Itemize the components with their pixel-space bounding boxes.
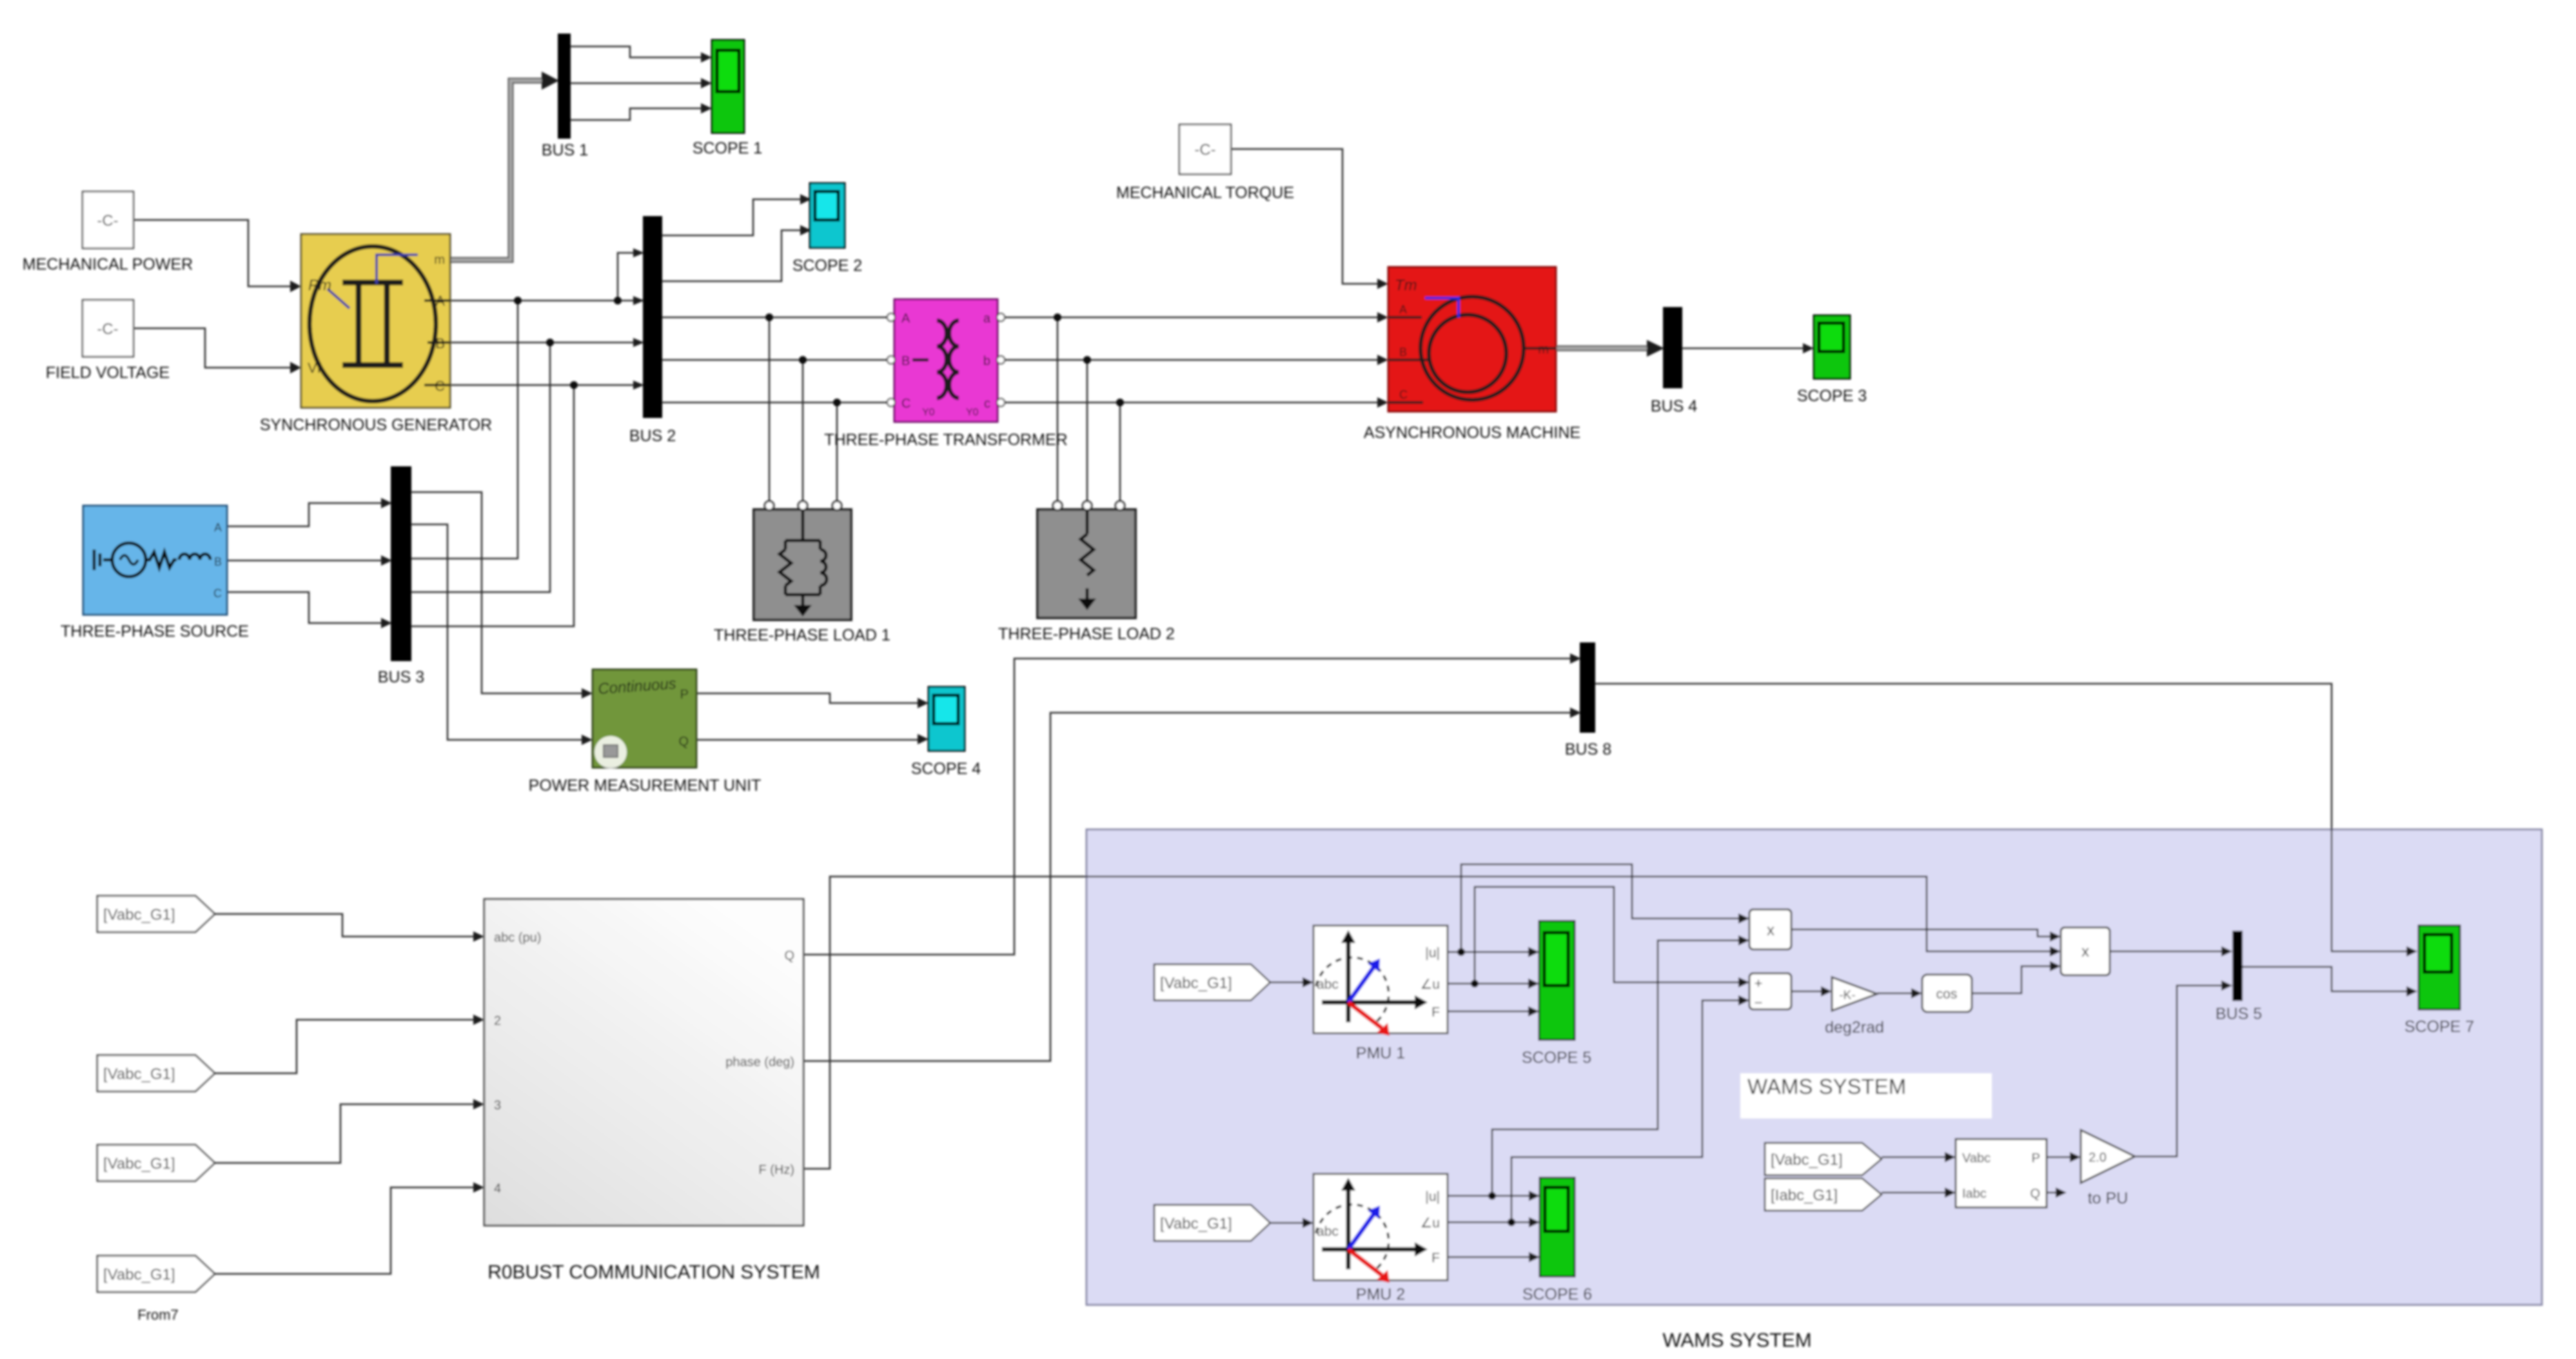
wire PQ Q out stub <box>2047 1192 2056 1194</box>
svg-text:B: B <box>1399 346 1407 359</box>
svg-text:Y0: Y0 <box>966 407 979 418</box>
svg-text:C: C <box>435 378 445 394</box>
from tag Vabc_G1 input4 <box>97 1256 215 1292</box>
WAMS subsystem area box <box>1086 829 2542 1305</box>
block THREE-PHASE TRANSFORMER <box>887 299 1005 422</box>
svg-text:abc (pu): abc (pu) <box>494 931 541 945</box>
scope SCOPE 6 <box>1540 1178 1575 1276</box>
svg-text:F: F <box>1431 1005 1440 1020</box>
junction at 2287,1525 <box>1471 980 1479 987</box>
wire drop to load1 A <box>769 317 771 502</box>
svg-text:SCOPE 2: SCOPE 2 <box>792 257 862 275</box>
junction at 1737,624 <box>1116 399 1124 406</box>
svg-text:P: P <box>680 688 689 702</box>
svg-text:Tm: Tm <box>1395 277 1417 294</box>
svg-text:BUS 5: BUS 5 <box>2216 1005 2262 1023</box>
svg-text:C: C <box>213 587 222 600</box>
block THREE-PHASE LOAD 2 <box>1037 501 1136 618</box>
arrowheads <box>290 52 2417 1262</box>
svg-text:abc: abc <box>1317 1224 1339 1239</box>
svg-text:[Vabc_G1]: [Vabc_G1] <box>103 1066 175 1083</box>
constant block MECHANICAL TORQUE <box>1179 124 1231 174</box>
wire deg2rad to cos <box>1877 993 1912 995</box>
wire power measurement Q to scope4 <box>696 739 919 740</box>
wire source B to bus3 <box>227 560 382 562</box>
wire bus2 to scope2 input1 <box>662 199 801 235</box>
wire mechanical power to generator Pm <box>133 220 291 286</box>
from tag Vabc_G1 input3 <box>97 1145 215 1181</box>
wire tag2 to RCS input2 <box>215 1020 475 1073</box>
svg-text:-K-: -K- <box>1839 989 1855 1002</box>
wire phase B generator to bus2 <box>450 342 634 344</box>
block cos <box>1922 975 1972 1012</box>
svg-text:−: − <box>1755 995 1763 1011</box>
svg-text:+: + <box>1755 975 1763 991</box>
wire Vabc tag to PQ block <box>1882 1156 1946 1158</box>
svg-text:deg2rad: deg2rad <box>1825 1018 1884 1037</box>
wire tag3 to RCS input3 <box>215 1104 475 1163</box>
wire PMU1 F to scope5 <box>1448 1011 1529 1013</box>
wire RCS phase output to bus8 <box>803 713 1571 1061</box>
svg-text:SCOPE 7: SCOPE 7 <box>2404 1018 2474 1036</box>
wire RCS Q output to bus8 <box>803 659 1571 955</box>
block R0BUST COMMUNICATION SYSTEM <box>484 899 803 1225</box>
svg-text:PMU 2: PMU 2 <box>1356 1285 1405 1304</box>
thick signal wire machine m to bus4 <box>1556 346 1649 352</box>
block POWER MEASUREMENT UNIT <box>593 670 696 768</box>
block PMU 2 <box>1313 1174 1448 1283</box>
scope SCOPE 3 <box>1814 315 1850 379</box>
wire source C to bus3 <box>227 592 382 623</box>
scope SCOPE 5 <box>1539 921 1575 1040</box>
wire cos to product2 <box>1972 966 2051 993</box>
svg-text:SYNCHRONOUS GENERATOR: SYNCHRONOUS GENERATOR <box>260 416 492 434</box>
svg-text:Iabc: Iabc <box>1962 1187 1987 1201</box>
gain deg2rad <box>1832 977 1877 1011</box>
wire bus5 to scope7 input2 <box>2243 967 2408 991</box>
svg-text:B: B <box>901 354 910 368</box>
svg-text:x: x <box>2081 943 2089 960</box>
svg-text:F: F <box>1431 1251 1440 1265</box>
wire branch A up into bus2 <box>618 253 634 301</box>
thick signal wire generator m to bus1 <box>450 81 548 260</box>
svg-text:∠u: ∠u <box>1420 1216 1440 1231</box>
wire tag4 to RCS input4 <box>215 1187 475 1274</box>
wire tag to PMU2 <box>1270 1222 1304 1224</box>
svg-text:-C-: -C- <box>1194 141 1215 159</box>
junction at 2344,1895 <box>1508 1218 1515 1226</box>
wire tag1 to RCS abc input <box>215 914 475 937</box>
wire PMU2 F to scope6 <box>1448 1256 1530 1258</box>
svg-text:a: a <box>983 312 991 326</box>
gain to PU <box>2081 1130 2135 1183</box>
svg-text:[Iabc_G1]: [Iabc_G1] <box>1771 1187 1838 1204</box>
bus BUS 3 <box>391 466 411 661</box>
svg-text:∠u: ∠u <box>1420 977 1440 992</box>
bus BUS 8 <box>1580 642 1595 733</box>
svg-text:[Vabc_G1]: [Vabc_G1] <box>103 1155 175 1173</box>
svg-text:MECHANICAL TORQUE: MECHANICAL TORQUE <box>1116 184 1294 202</box>
svg-text:|u|: |u| <box>1425 946 1440 960</box>
junction at 958,466 <box>614 297 622 304</box>
wire field voltage to generator Vf <box>133 328 291 368</box>
junction at 2314,1854 <box>1488 1192 1496 1200</box>
from tag Vabc_G1 input2 <box>97 1055 215 1091</box>
svg-text:Vf: Vf <box>308 360 322 376</box>
block ASYNCHRONOUS MACHINE <box>1388 267 1556 412</box>
block THREE-PHASE SOURCE <box>83 506 227 615</box>
svg-text:R0BUST COMMUNICATION SYSTEM: R0BUST COMMUNICATION SYSTEM <box>487 1262 820 1283</box>
junction at 1686,558 <box>1083 356 1091 364</box>
wire branch C down to bus3 <box>411 385 574 626</box>
wire RCS F output to product2 <box>803 877 2051 1169</box>
wire PMU2 u riser to product1 <box>1492 940 1740 1196</box>
wire mechanical torque to machine Tm <box>1231 149 1379 284</box>
svg-text:[Vabc_G1]: [Vabc_G1] <box>103 906 175 924</box>
svg-text:[Vabc_G1]: [Vabc_G1] <box>1160 1215 1232 1233</box>
scope SCOPE 7 <box>2419 926 2460 1009</box>
block PQ measurement <box>1956 1139 2047 1207</box>
wire Iabc tag to PQ block <box>1882 1192 1946 1194</box>
block PMU 1 <box>1313 926 1448 1036</box>
svg-text:|u|: |u| <box>1425 1189 1440 1204</box>
scope SCOPE 1 <box>712 40 744 133</box>
svg-text:From7: From7 <box>137 1307 179 1323</box>
from tag Vabc_G1 input1 <box>97 896 215 932</box>
svg-text:B: B <box>435 335 445 352</box>
wire phase B bus2 to transformer <box>662 359 891 361</box>
svg-text:[Vabc_G1]: [Vabc_G1] <box>1771 1151 1843 1169</box>
svg-text:SCOPE 6: SCOPE 6 <box>1522 1285 1592 1304</box>
label box WAMS SYSTEM <box>1740 1073 1992 1118</box>
from tag Iabc_G1 PQ <box>1765 1178 1882 1211</box>
svg-text:BUS 2: BUS 2 <box>629 427 676 445</box>
svg-text:SCOPE 3: SCOPE 3 <box>1797 387 1867 405</box>
svg-text:SCOPE 4: SCOPE 4 <box>911 760 981 778</box>
wire phase C transformer to machine <box>1001 402 1379 404</box>
wire bus3 to power measurement input2 <box>411 524 583 740</box>
svg-text:PMU 1: PMU 1 <box>1356 1044 1405 1062</box>
junction at 890,597 <box>570 381 578 389</box>
wire branch A down to bus3 <box>411 301 518 559</box>
product block x <box>1749 909 1791 949</box>
wire tag to PMU1 <box>1270 982 1304 984</box>
svg-text:MECHANICAL POWER: MECHANICAL POWER <box>23 255 193 273</box>
svg-text:to PU: to PU <box>2088 1189 2129 1207</box>
bus BUS 4 <box>1663 307 1682 388</box>
svg-text:4: 4 <box>494 1182 501 1196</box>
bus BUS 5 <box>2232 931 2243 1001</box>
wire product1 out to product2 <box>1791 929 2051 937</box>
wire drop to load2 A <box>1057 317 1059 502</box>
svg-text:WAMS SYSTEM: WAMS SYSTEM <box>1747 1075 1906 1098</box>
wire power measurement P to scope4 <box>696 693 919 703</box>
wire bus1 to scope1 input3 <box>570 108 702 120</box>
svg-text:phase (deg): phase (deg) <box>725 1055 794 1069</box>
svg-text:C: C <box>901 397 910 411</box>
wire phase B transformer to machine <box>1001 359 1379 361</box>
wire PMU1 angle to scope5 <box>1448 983 1529 985</box>
svg-text:ASYNCHRONOUS MACHINE: ASYNCHRONOUS MACHINE <box>1364 424 1580 442</box>
wire bus3 to power measurement input1 <box>411 492 583 693</box>
from tag Vabc_G1 PMU1 <box>1154 964 1270 1000</box>
wire bus1 to scope1 input2 <box>570 83 702 84</box>
junction at 1298,624 <box>833 399 841 406</box>
svg-text:SCOPE 5: SCOPE 5 <box>1522 1049 1591 1067</box>
junction at 1245,558 <box>799 356 807 364</box>
svg-text:m: m <box>434 253 445 267</box>
svg-text:b: b <box>983 354 990 368</box>
junction at 853,531 <box>546 339 554 346</box>
junction at 1640,492 <box>1054 313 1061 321</box>
svg-text:Q: Q <box>678 735 689 749</box>
wire bus2 to scope2 input2 <box>662 230 801 281</box>
svg-text:FIELD VOLTAGE: FIELD VOLTAGE <box>46 364 170 382</box>
constant block MECHANICAL POWER <box>83 192 133 248</box>
svg-text:Q: Q <box>2030 1187 2040 1201</box>
wire drop to load1 C <box>836 402 838 502</box>
wire bus4 to scope3 <box>1682 348 1804 350</box>
wire bus8 to scope7 input1 <box>1595 684 2408 951</box>
svg-text:C: C <box>1399 388 1408 401</box>
wire drop to load2 B <box>1086 360 1088 502</box>
wire PMU2 angle to scope6 <box>1448 1222 1530 1224</box>
wire product2 to bus5 <box>2110 951 2223 953</box>
svg-text:POWER MEASUREMENT UNIT: POWER MEASUREMENT UNIT <box>529 777 762 795</box>
junction at 2266,1476 <box>1457 948 1465 956</box>
svg-text:-C-: -C- <box>97 212 118 230</box>
wire source A to bus3 <box>227 503 382 526</box>
bus BUS 2 <box>643 216 662 418</box>
wire sum to deg2rad <box>1791 991 1822 993</box>
svg-text:Vabc: Vabc <box>1962 1151 1991 1166</box>
wire branch B down to bus3 <box>411 342 550 592</box>
block SYNCHRONOUS GENERATOR <box>301 234 450 408</box>
svg-text:A: A <box>214 521 222 534</box>
svg-text:THREE-PHASE LOAD 1: THREE-PHASE LOAD 1 <box>714 626 890 644</box>
wire phase A generator to bus2 <box>450 300 644 302</box>
svg-text:SCOPE 1: SCOPE 1 <box>693 139 762 157</box>
wire PMU1 u to scope5 <box>1448 951 1529 953</box>
svg-text:-C-: -C- <box>97 321 118 338</box>
svg-text:B: B <box>214 555 222 568</box>
wire PMU1 u riser to product1 <box>1461 864 1740 952</box>
svg-text:Q: Q <box>784 949 794 963</box>
svg-text:cos: cos <box>1936 987 1958 1002</box>
svg-text:WAMS SYSTEM: WAMS SYSTEM <box>1662 1329 1811 1351</box>
from tag Vabc_G1 PMU2 <box>1154 1205 1270 1241</box>
svg-text:abc: abc <box>1317 977 1339 992</box>
wire drop to load2 C <box>1119 402 1121 502</box>
svg-text:A: A <box>901 312 910 326</box>
svg-text:BUS 4: BUS 4 <box>1651 397 1697 415</box>
wire PMU2 u to scope6 <box>1448 1195 1530 1197</box>
wire phase A transformer to machine <box>1001 317 1379 319</box>
from tag Vabc_G1 PQ <box>1765 1143 1882 1175</box>
product block x2 <box>2061 927 2110 975</box>
svg-text:THREE-PHASE SOURCE: THREE-PHASE SOURCE <box>61 622 249 640</box>
svg-text:BUS 1: BUS 1 <box>542 141 588 159</box>
scope SCOPE 4 <box>929 687 965 751</box>
wire PQ P out to toPU <box>2047 1156 2071 1158</box>
wire phase C bus2 to transformer <box>662 402 891 404</box>
svg-text:THREE-PHASE TRANSFORMER: THREE-PHASE TRANSFORMER <box>824 431 1067 449</box>
svg-text:2.0: 2.0 <box>2089 1151 2107 1165</box>
constant block FIELD VOLTAGE <box>83 300 133 357</box>
wire PMU1 angle riser to sum <box>1475 887 1740 984</box>
svg-text:THREE-PHASE LOAD 2: THREE-PHASE LOAD 2 <box>998 625 1175 643</box>
svg-text:3: 3 <box>494 1098 501 1113</box>
bus BUS 1 <box>558 34 571 139</box>
svg-text:c: c <box>984 397 990 411</box>
svg-text:BUS 3: BUS 3 <box>378 668 424 686</box>
svg-text:BUS 8: BUS 8 <box>1565 740 1611 759</box>
junction at 803,466 <box>514 297 522 304</box>
svg-text:x: x <box>1767 922 1775 939</box>
svg-text:Pm: Pm <box>308 277 331 294</box>
block THREE-PHASE LOAD 1 <box>754 501 851 620</box>
svg-text:2: 2 <box>494 1014 501 1028</box>
svg-text:Y0: Y0 <box>922 407 935 418</box>
wire phase C generator to bus2 <box>450 384 634 386</box>
svg-text:A: A <box>1399 303 1407 316</box>
wire bus1 to scope1 input1 <box>570 46 702 57</box>
junction at 1193,492 <box>765 313 773 321</box>
wire phase A bus2 to transformer <box>662 317 891 319</box>
svg-text:F (Hz): F (Hz) <box>758 1163 794 1177</box>
wire PMU2 angle riser to sum <box>1511 1000 1740 1222</box>
svg-text:P: P <box>2032 1151 2040 1166</box>
svg-text:[Vabc_G1]: [Vabc_G1] <box>1160 975 1232 992</box>
scope SCOPE 2 <box>810 183 845 248</box>
sum block <box>1749 973 1791 1011</box>
wire drop to load1 B <box>802 360 804 502</box>
svg-text:[Vabc_G1]: [Vabc_G1] <box>103 1266 175 1284</box>
wire toPU to bus5 <box>2135 986 2223 1156</box>
